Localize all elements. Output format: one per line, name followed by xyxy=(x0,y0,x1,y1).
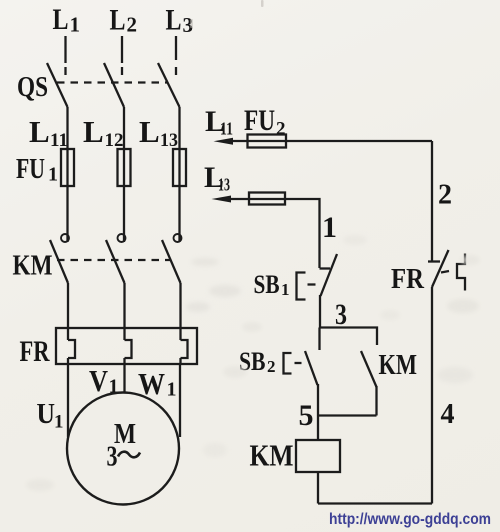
svg-text:L: L xyxy=(53,3,69,36)
switch QS pole 1 xyxy=(47,63,68,107)
contactor KM main contact 3 xyxy=(162,234,182,283)
svg-text:2: 2 xyxy=(127,13,138,37)
fuse FU1 label xyxy=(16,153,58,186)
wire control line B xyxy=(227,199,320,268)
url text xyxy=(329,511,491,528)
node L1 xyxy=(53,3,81,37)
node 5 label xyxy=(299,399,314,432)
svg-text:1: 1 xyxy=(167,379,177,401)
wire contact2 to FR xyxy=(123,283,125,329)
svg-text:FR: FR xyxy=(20,335,50,368)
wire fuse1 to contact xyxy=(66,186,68,242)
pushbutton SB2 actuator xyxy=(284,353,302,374)
wire node 3 branch xyxy=(320,328,377,346)
svg-text:FR: FR xyxy=(391,263,425,295)
wire node5 to coil xyxy=(317,416,319,441)
wire FR to motor W1 xyxy=(179,364,181,437)
contactor KM main contact 2 xyxy=(106,234,126,283)
svg-text:KM: KM xyxy=(250,438,294,473)
wire fuse2 to contact xyxy=(123,186,125,242)
switch QS label xyxy=(17,71,48,103)
contactor KM linkage dashed xyxy=(57,259,170,261)
svg-text:3: 3 xyxy=(335,298,347,331)
terminal U1 xyxy=(37,399,64,433)
svg-text:FU: FU xyxy=(244,104,275,137)
wire L3 feeder xyxy=(175,36,177,60)
svg-text:1: 1 xyxy=(70,13,81,37)
arrow L11 xyxy=(214,138,234,145)
fuse FU2 pole B xyxy=(249,193,285,205)
wire contact3 to FR xyxy=(179,283,181,329)
thermal relay FR heater 1 xyxy=(68,328,75,364)
wire pole2 to fuse xyxy=(123,107,125,150)
thermal relay FR contact element xyxy=(457,254,465,291)
wire L1 feeder xyxy=(64,36,66,63)
svg-text:2: 2 xyxy=(267,357,276,376)
fuse FU1 pole 2 xyxy=(118,149,131,186)
node L2 xyxy=(110,4,138,37)
wire 2 vertical xyxy=(431,141,433,262)
arrow L13 xyxy=(212,196,232,203)
wire pole3 to fuse xyxy=(178,107,180,150)
fuse FU1 pole 3 xyxy=(173,149,186,186)
wire contact1 to FR xyxy=(67,283,69,329)
wire L2 feeder xyxy=(121,36,123,63)
coil KM xyxy=(296,440,340,472)
svg-text:KM: KM xyxy=(379,350,418,381)
svg-text:11: 11 xyxy=(220,119,233,139)
svg-text:5: 5 xyxy=(299,399,314,432)
contactor KM main contact 1 xyxy=(50,234,69,283)
node 1 label xyxy=(322,211,337,244)
node L12 xyxy=(83,114,124,151)
svg-text:1: 1 xyxy=(322,211,337,244)
node L11 xyxy=(29,114,68,151)
switch QS linkage dashed xyxy=(57,81,168,83)
wire FR to motor V1 xyxy=(123,364,125,393)
node 2 label xyxy=(438,180,452,211)
node L13 xyxy=(139,114,178,151)
node L3 xyxy=(166,4,194,38)
svg-text:3: 3 xyxy=(107,441,118,473)
svg-text:FU: FU xyxy=(16,153,45,185)
thermal relay FR heater 2 xyxy=(125,328,132,364)
fuse FU2 xyxy=(248,135,287,148)
svg-text:L: L xyxy=(110,4,126,37)
node L13 control xyxy=(204,161,230,195)
motor M label xyxy=(107,418,137,473)
contactor KM auxiliary contact xyxy=(361,351,377,416)
node 3 label xyxy=(335,298,347,331)
thermal relay FR box xyxy=(56,328,197,364)
thermal relay FR contact label xyxy=(391,263,425,295)
thermal relay FR contact xyxy=(428,250,449,287)
switch QS pole 3 xyxy=(158,63,180,107)
terminal V1 xyxy=(89,363,119,398)
svg-text:4: 4 xyxy=(441,399,455,430)
svg-text:U: U xyxy=(37,399,56,430)
svg-text:L: L xyxy=(83,114,104,149)
node L11 control xyxy=(205,105,233,139)
svg-text:QS: QS xyxy=(17,71,48,103)
wire fuse3 to contact xyxy=(178,186,180,242)
terminal W1 xyxy=(138,366,177,401)
switch QS pole 2 xyxy=(104,63,124,107)
svg-text:L: L xyxy=(29,114,50,149)
contactor KM label xyxy=(13,250,53,282)
wire control line A xyxy=(228,140,432,142)
svg-text:L: L xyxy=(139,114,160,149)
svg-text:SB: SB xyxy=(254,270,280,299)
svg-text:L: L xyxy=(166,4,182,37)
svg-text:V: V xyxy=(89,363,109,398)
wire node 5 branch xyxy=(318,414,377,416)
wire bottom xyxy=(318,502,432,504)
svg-text:2: 2 xyxy=(276,119,286,140)
svg-text:2: 2 xyxy=(438,180,452,211)
wire pole1 to fuse xyxy=(66,107,68,150)
pushbutton SB1 contact xyxy=(320,254,338,328)
fuse FU1 pole 1 xyxy=(61,149,74,186)
pushbutton SB2 contact xyxy=(305,328,320,416)
fuse FU2 label xyxy=(244,104,286,140)
svg-text:1: 1 xyxy=(48,164,58,186)
thermal relay FR heater 3 xyxy=(181,328,188,364)
pushbutton SB1 label xyxy=(254,270,290,299)
wire 4 vertical xyxy=(431,287,433,504)
pushbutton SB1 actuator xyxy=(297,273,316,300)
pushbutton SB2 label xyxy=(239,347,276,376)
contactor KM auxiliary label xyxy=(379,350,418,381)
motor tilde xyxy=(118,452,140,458)
wire coil to bottom xyxy=(317,472,319,504)
wire FR to motor U1 xyxy=(67,364,69,437)
svg-text:13: 13 xyxy=(218,175,230,195)
node 4 label xyxy=(441,399,455,430)
motor M xyxy=(67,393,179,505)
coil KM label xyxy=(250,438,294,473)
svg-text:1: 1 xyxy=(54,412,64,433)
svg-text:KM: KM xyxy=(13,250,53,282)
svg-text:http://www.go-gddq.com: http://www.go-gddq.com xyxy=(329,511,491,528)
thermal relay FR label xyxy=(20,335,50,368)
svg-text:1: 1 xyxy=(281,280,290,299)
